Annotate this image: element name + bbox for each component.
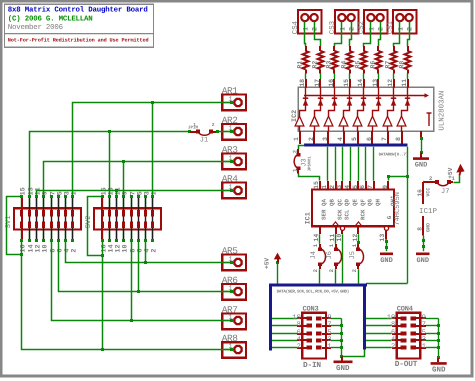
svg-text:10: 10 <box>41 244 49 252</box>
resistor R5 <box>363 46 365 51</box>
svg-text:CON3: CON3 <box>303 306 319 314</box>
SV1 pin pair 3/4 <box>65 197 67 209</box>
junction RCK wire <box>357 241 360 244</box>
IC2 pin 14 (top) <box>363 79 365 87</box>
wire J6 to bus2 <box>335 269 337 283</box>
svg-text:8x8 Matrix Control Daughter Bo: 8x8 Matrix Control Daughter Board <box>8 5 148 14</box>
connector CS4 <box>298 10 322 34</box>
svg-text:R4: R4 <box>340 61 347 69</box>
svg-text:D-IN: D-IN <box>303 361 321 370</box>
resistor R8 <box>407 46 409 51</box>
IC1P pin 8 GND <box>422 216 424 236</box>
svg-text:ULN2803AN: ULN2803AN <box>439 91 447 131</box>
svg-text:RCK: RCK <box>359 209 366 220</box>
IC2 pin 17 (top) <box>319 79 321 87</box>
connector CON3 <box>302 313 326 359</box>
svg-text:QH: QH <box>375 199 382 206</box>
wire bus to IC1 pin <box>350 147 352 181</box>
svg-text:AR4: AR4 <box>222 173 238 184</box>
svg-text:13: 13 <box>372 79 379 87</box>
SV2 pin pair 5/6 <box>138 197 140 209</box>
svg-text:R3: R3 <box>325 61 332 69</box>
svg-text:SCK: SCK <box>336 209 343 220</box>
wire R8 to IC2 pin 11 <box>407 73 409 79</box>
bus DATA left vertical <box>269 284 272 351</box>
bus DATA horizontal <box>269 284 367 287</box>
svg-text:16: 16 <box>416 189 423 197</box>
IC2 pin 11 (top) <box>407 79 409 87</box>
pad AR5 <box>222 255 246 271</box>
svg-text:4: 4 <box>337 137 344 141</box>
svg-text:2: 2 <box>328 269 335 272</box>
svg-text:7: 7 <box>422 321 426 329</box>
wire AR7 to SV1 col5 <box>52 241 232 321</box>
junction AR3/SV2 <box>122 160 125 163</box>
svg-text:November 2006: November 2006 <box>8 23 63 32</box>
CON3 ground symbol <box>341 357 343 361</box>
IC2 darlington cell 4 <box>343 126 345 131</box>
svg-text:J3: J3 <box>301 158 309 166</box>
svg-text:15: 15 <box>313 181 320 189</box>
svg-text:2: 2 <box>297 343 301 351</box>
svg-text:QG: QG <box>367 199 374 206</box>
svg-text:R1: R1 <box>296 61 303 69</box>
svg-text:AR5: AR5 <box>222 245 238 256</box>
wire SV2 col1 to AR8 <box>102 256 104 350</box>
IC1 pin 10 SCL <box>340 226 344 230</box>
svg-text:R5: R5 <box>354 61 361 69</box>
wire AR3 branch SV2 col4 <box>123 162 125 197</box>
IC2 darlington cell 2 <box>314 126 316 131</box>
svg-text:SCL: SCL <box>343 209 350 220</box>
border bottom <box>0 375 474 378</box>
SV2 pin pair 3/4 <box>145 197 147 209</box>
svg-text:CS2: CS2 <box>358 21 366 34</box>
svg-text:GND: GND <box>415 161 428 169</box>
IC1 pin 12 RCK <box>355 222 362 226</box>
wire AR4 to SV1 col3 <box>37 191 232 197</box>
wire IC1P pin16 to J7 <box>423 181 424 183</box>
jumper J3 <box>299 146 305 150</box>
junction AR2/SV2 <box>108 130 111 133</box>
svg-text:1: 1 <box>193 122 196 128</box>
connector CS1 <box>393 10 417 34</box>
wire R7 to IC2 pin 12 <box>393 73 395 79</box>
IC1 pin 6 (top) <box>365 181 367 190</box>
pad AR2 <box>222 124 246 140</box>
IC2 pin 4 (bottom) to bus <box>343 131 345 144</box>
IC2 pin 1 (bottom) to bus <box>299 131 301 144</box>
svg-text:AR3: AR3 <box>222 144 238 155</box>
wire SV2 col1 top loop <box>88 197 103 256</box>
svg-text:12: 12 <box>387 79 394 87</box>
IC2 pin 3 (bottom) to bus <box>327 131 329 144</box>
wire AR3 to SV1 col4 <box>44 162 232 197</box>
wire QH* vertical net <box>407 147 409 284</box>
IC1 pin 13 G <box>384 226 388 230</box>
SV1 pin pair 9/10 <box>43 197 45 209</box>
IC2 pin 16 (top) <box>333 79 335 87</box>
resistor R4 <box>349 46 351 51</box>
junction AR5/SV2 <box>144 261 147 264</box>
IC1 body <box>312 189 394 226</box>
pad AR7 <box>222 314 246 330</box>
IC1P pin 16 VCC <box>422 182 424 204</box>
resistor R7 <box>393 46 395 51</box>
wire AR4 branch SV2 col3 <box>116 191 118 197</box>
svg-text:6: 6 <box>359 185 366 189</box>
CON3 pin 7 wire <box>316 324 322 328</box>
wire SV1 col1 top loop <box>7 197 22 255</box>
svg-text:1: 1 <box>369 27 377 31</box>
svg-text:G: G <box>386 215 393 219</box>
IC2 pin 5 (bottom) to bus <box>357 131 359 144</box>
connector SV2 body <box>94 208 161 229</box>
wire R6 to IC2 pin 13 <box>378 73 380 79</box>
svg-text:2: 2 <box>308 137 315 141</box>
IC1 pin 7 (top) <box>373 181 375 190</box>
IC1 pin 5 (top) <box>357 181 359 190</box>
svg-text:QB: QB <box>329 199 336 206</box>
svg-text:1: 1 <box>70 191 78 195</box>
CON4 pin 1 wire <box>410 346 416 350</box>
IC1 pin 2 (top) <box>335 181 337 190</box>
svg-text:9: 9 <box>382 185 389 189</box>
SV2 pin pair 9/10 <box>123 197 125 209</box>
svg-text:QF: QF <box>360 199 367 206</box>
svg-text:GND: GND <box>380 257 393 265</box>
wire AR7 branch SV2 col5 <box>131 241 133 321</box>
junction AR7/SV2 <box>130 319 133 322</box>
svg-text:7: 7 <box>381 137 388 141</box>
wire AR7 pad <box>224 320 234 322</box>
IC1 pin 15 (top) <box>319 181 321 190</box>
IC2 darlington cell 3 <box>328 126 330 131</box>
svg-text:R8: R8 <box>398 61 405 69</box>
wire AR1 branch SV2 col8 <box>152 103 154 197</box>
CON3 pin 10 wire <box>272 318 297 320</box>
wire AR1 pad <box>224 102 234 104</box>
CON3 pin 4 wire <box>272 340 297 342</box>
wire J3 to IC1 pin 15 <box>299 174 320 181</box>
CON4 pin 6 wire <box>366 333 392 335</box>
pad AR4 <box>222 183 246 199</box>
svg-text:8: 8 <box>391 321 395 329</box>
CON4 ground symbol <box>437 358 439 362</box>
IC1 G ground symbol <box>380 253 393 256</box>
border right <box>471 0 474 377</box>
CON3 ground net <box>341 319 343 357</box>
pad AR8 <box>222 342 246 358</box>
IC1 pin 9 wire to bus2 <box>387 175 390 178</box>
IC2 darlington cell 6 <box>372 126 374 131</box>
svg-text:CS1: CS1 <box>387 20 395 34</box>
CON4 pin 9 wire <box>410 317 416 321</box>
svg-text:IC1P: IC1P <box>419 207 438 216</box>
svg-text:16: 16 <box>19 244 27 252</box>
IC2 pin 6 (bottom) to bus <box>371 131 373 144</box>
junction AR6/SV2 <box>137 290 140 293</box>
svg-text:2: 2 <box>391 343 395 351</box>
wire bus to IC1 pin <box>327 147 329 181</box>
wire AR2 branch SV2 col2 <box>109 132 111 197</box>
svg-text:J7: J7 <box>441 188 449 196</box>
svg-text:1: 1 <box>422 343 426 351</box>
svg-text:J6: J6 <box>326 251 334 259</box>
svg-text:R6: R6 <box>369 61 376 69</box>
wire CS3 pin1 to R3 <box>335 22 342 47</box>
svg-text:CS4: CS4 <box>292 20 300 34</box>
IC2 body <box>298 87 433 131</box>
svg-text:8: 8 <box>297 321 301 329</box>
CON3 pin 8 wire <box>272 325 297 327</box>
svg-text:5: 5 <box>351 137 358 141</box>
wire bus to IC1 pin <box>335 147 337 181</box>
SV1 pin pair 5/6 <box>58 197 60 209</box>
IC2 darlington cell 1 <box>299 126 301 131</box>
svg-text:QD: QD <box>344 199 351 206</box>
title block frame <box>5 4 154 47</box>
svg-text:JP5MM1: JP5MM1 <box>308 156 313 172</box>
svg-text:J5: J5 <box>349 251 357 259</box>
wire bus GND to CON3 <box>342 350 365 357</box>
connector SV1 body <box>14 208 81 229</box>
wire R4 to IC2 pin 15 <box>349 73 351 79</box>
resistor R1 <box>305 46 307 51</box>
svg-text:IC1: IC1 <box>304 212 312 224</box>
IC1 pin 1 (top) <box>327 181 329 190</box>
wire IC1P to ground <box>423 236 425 252</box>
svg-text:GND: GND <box>432 366 446 375</box>
svg-text:14: 14 <box>357 79 364 87</box>
svg-text:1: 1 <box>340 27 348 31</box>
svg-text:18: 18 <box>299 79 306 87</box>
wire AR6 to SV1 col6 <box>59 241 232 292</box>
CON3 pin 1 wire <box>316 346 322 350</box>
supply +5V (bus) <box>276 261 279 264</box>
svg-text:+5V: +5V <box>264 258 271 269</box>
svg-text:1: 1 <box>327 343 331 351</box>
wire SCL to bus2 <box>342 234 344 283</box>
wire R5 to IC2 pin 14 <box>363 73 365 79</box>
wire AR8 pad <box>224 349 234 351</box>
SV2 pin pair 1/2 <box>152 197 154 209</box>
jumper J7 <box>424 181 436 183</box>
wire R1 to IC2 pin 18 <box>305 73 307 79</box>
svg-text:GND: GND <box>426 223 432 232</box>
wire bus to IC1 pin <box>365 147 367 181</box>
CON4 pin 8 wire <box>366 325 392 327</box>
wire bus to IC1 pin <box>373 147 375 181</box>
bus DATA right vertical <box>363 284 366 350</box>
CON4 ground net <box>438 319 440 358</box>
wire CS1 pin1 to R7 <box>394 22 400 47</box>
svg-text:2: 2 <box>329 185 336 189</box>
IC1 pin 3 (top) <box>341 181 343 190</box>
resistor R3 <box>333 46 335 51</box>
IC2 darlington cell 7 <box>387 126 389 131</box>
jumper J5 <box>357 244 359 249</box>
CON4 pin 3 wire <box>410 339 416 343</box>
IC2 pin 8 (bottom) to bus <box>401 131 403 144</box>
CON3 pin 6 wire <box>272 333 297 335</box>
svg-text:GND: GND <box>416 257 429 265</box>
svg-text:1: 1 <box>398 27 406 31</box>
svg-text:16: 16 <box>328 79 335 87</box>
svg-text:3: 3 <box>336 185 343 189</box>
svg-text:7: 7 <box>327 321 331 329</box>
junction SV2 col1 <box>101 254 104 257</box>
svg-text:2: 2 <box>378 27 386 31</box>
svg-text:QC: QC <box>337 199 344 206</box>
jumper J6 <box>335 244 337 249</box>
IC2 COM pin 10 stub <box>428 113 430 126</box>
jumper J1 <box>188 130 191 133</box>
IC1 pin 4 (top) <box>349 181 351 190</box>
SV1 pin pair 1/2 <box>72 197 74 209</box>
CON3 pin 3 wire <box>316 339 322 343</box>
wire R2 to IC2 pin 17 <box>320 73 322 79</box>
svg-text:D-OUT: D-OUT <box>395 360 418 369</box>
svg-text:3: 3 <box>322 137 329 141</box>
IC2 pin 18 (top) <box>305 79 307 87</box>
svg-text:5: 5 <box>352 185 359 189</box>
wire AR8 from SV1 col1 <box>22 255 232 350</box>
svg-text:J1: J1 <box>200 137 208 145</box>
CON3 pin 5 wire <box>316 332 322 336</box>
border top <box>0 0 474 3</box>
wire AR2 to SV1 col2 <box>30 132 190 197</box>
svg-text:2: 2 <box>212 122 215 128</box>
svg-text:10: 10 <box>121 244 129 252</box>
svg-text:2: 2 <box>351 269 358 272</box>
svg-text:1: 1 <box>293 137 300 141</box>
svg-text:GND: GND <box>336 364 350 373</box>
IC2 pin 2 (bottom) to bus <box>313 131 315 144</box>
resistor R6 <box>377 46 379 51</box>
svg-text:2: 2 <box>349 27 357 31</box>
wire R3 to IC2 pin 16 <box>334 73 336 79</box>
svg-text:15: 15 <box>343 79 350 87</box>
wire bus to IC1 pin <box>358 147 360 181</box>
CON4 pin 5 wire <box>410 332 416 336</box>
svg-text:4: 4 <box>344 185 351 189</box>
IC1 pin 9 (top) <box>387 181 389 190</box>
svg-text:6: 6 <box>366 137 373 141</box>
SV2 pin pair 11/12 <box>116 197 118 209</box>
svg-text:11: 11 <box>401 79 408 87</box>
wire G to ground <box>386 240 388 252</box>
wire CS2 pin1 to R5 <box>364 22 371 47</box>
wire AR6 pad <box>224 291 234 293</box>
wire J5 to bus2 <box>358 269 360 283</box>
pad AR3 <box>222 154 246 170</box>
svg-text:2: 2 <box>312 27 320 31</box>
SV1 pin pair 7/8 <box>51 197 53 209</box>
IC2 pin 15 (top) <box>349 79 351 87</box>
wire SV1 col1 bottom stub <box>21 241 23 255</box>
wire CS2 pin2 to R6 <box>379 22 381 47</box>
IC2 darlington cell 5 <box>357 126 359 131</box>
svg-text:R7: R7 <box>384 61 391 69</box>
wire AR5 pad <box>224 262 234 264</box>
supply +5V (right) <box>460 170 461 175</box>
IC2 COM rail <box>304 95 426 97</box>
SV1 pin pair 15/16 <box>21 197 23 209</box>
jumper J4 <box>319 244 321 249</box>
IC1P ground symbol <box>416 253 430 256</box>
pad AR6 <box>222 284 246 300</box>
IC1 pin 14 SER <box>319 226 321 234</box>
IC2 pin 9 GND stub <box>420 131 422 139</box>
svg-text:1: 1 <box>303 27 311 31</box>
wire AR2 pad <box>224 131 234 133</box>
junction AR4/SV2 <box>115 189 118 192</box>
IC2 pin 12 (top) <box>393 79 395 87</box>
svg-text:2: 2 <box>291 150 298 153</box>
CON4 pin 2 wire <box>366 347 392 349</box>
wire AR6 branch SV2 col6 <box>138 241 140 292</box>
svg-text:SV2: SV2 <box>85 215 93 228</box>
svg-text:R2: R2 <box>311 61 318 69</box>
pad AR1 <box>222 95 246 111</box>
SV2 pin pair 7/8 <box>131 197 133 209</box>
SV1 pin pair 13/14 <box>29 197 31 209</box>
svg-text:J4: J4 <box>310 251 318 259</box>
wire AR5 to SV1 col7 <box>66 241 232 263</box>
wire CS3 pin2 to R4 <box>350 22 352 47</box>
wire CS4 pin1 to R1 <box>305 22 306 47</box>
svg-text:7: 7 <box>367 185 374 189</box>
svg-text:QH*: QH* <box>390 196 397 206</box>
CON4 pin 10 wire <box>366 318 392 320</box>
CON4 pin 7 wire <box>410 324 416 328</box>
svg-text:17: 17 <box>314 79 321 87</box>
svg-text:1: 1 <box>321 185 328 189</box>
wire AR1 to SV1 col8 <box>73 103 232 197</box>
wire J7 to +5V <box>454 175 460 183</box>
svg-text:AR1: AR1 <box>222 85 238 96</box>
IC2 darlington cell 8 <box>401 126 403 131</box>
svg-text:9: 9 <box>41 191 49 195</box>
IC1 pin 11 SCK <box>332 222 339 226</box>
svg-text:+5V: +5V <box>447 167 454 178</box>
junction SV1 col1 <box>20 253 23 256</box>
connector CON4 <box>397 313 421 359</box>
svg-text:QE: QE <box>352 199 359 206</box>
svg-text:QA: QA <box>321 199 328 206</box>
svg-text:CS3: CS3 <box>329 21 337 34</box>
wire CS1 pin2 to R8 <box>408 22 410 47</box>
svg-text:CON4: CON4 <box>397 306 413 314</box>
svg-text:SER: SER <box>320 209 327 220</box>
svg-text:2: 2 <box>150 249 158 253</box>
svg-text:Not-For-Profit Redistribution: Not-For-Profit Redistribution and Use Pe… <box>8 38 149 44</box>
IC2 pin 7 (bottom) to bus <box>387 131 389 144</box>
SV2 pin pair 13/14 <box>109 197 111 209</box>
svg-text:(C) 2006 G. MCLELLAN: (C) 2006 G. MCLELLAN <box>8 14 93 23</box>
svg-text:VCC: VCC <box>426 188 432 197</box>
SV1 pin pair 11/12 <box>36 197 38 209</box>
border left <box>0 0 3 377</box>
svg-text:8: 8 <box>416 227 423 231</box>
resistor R2 <box>319 46 321 51</box>
wire SV2 col1 bottom stub <box>102 241 104 256</box>
wire AR3 pad <box>224 161 234 163</box>
IC2 ground symbol <box>413 157 429 160</box>
CON3 pin 2 wire <box>272 347 297 349</box>
svg-text:1: 1 <box>150 191 158 195</box>
